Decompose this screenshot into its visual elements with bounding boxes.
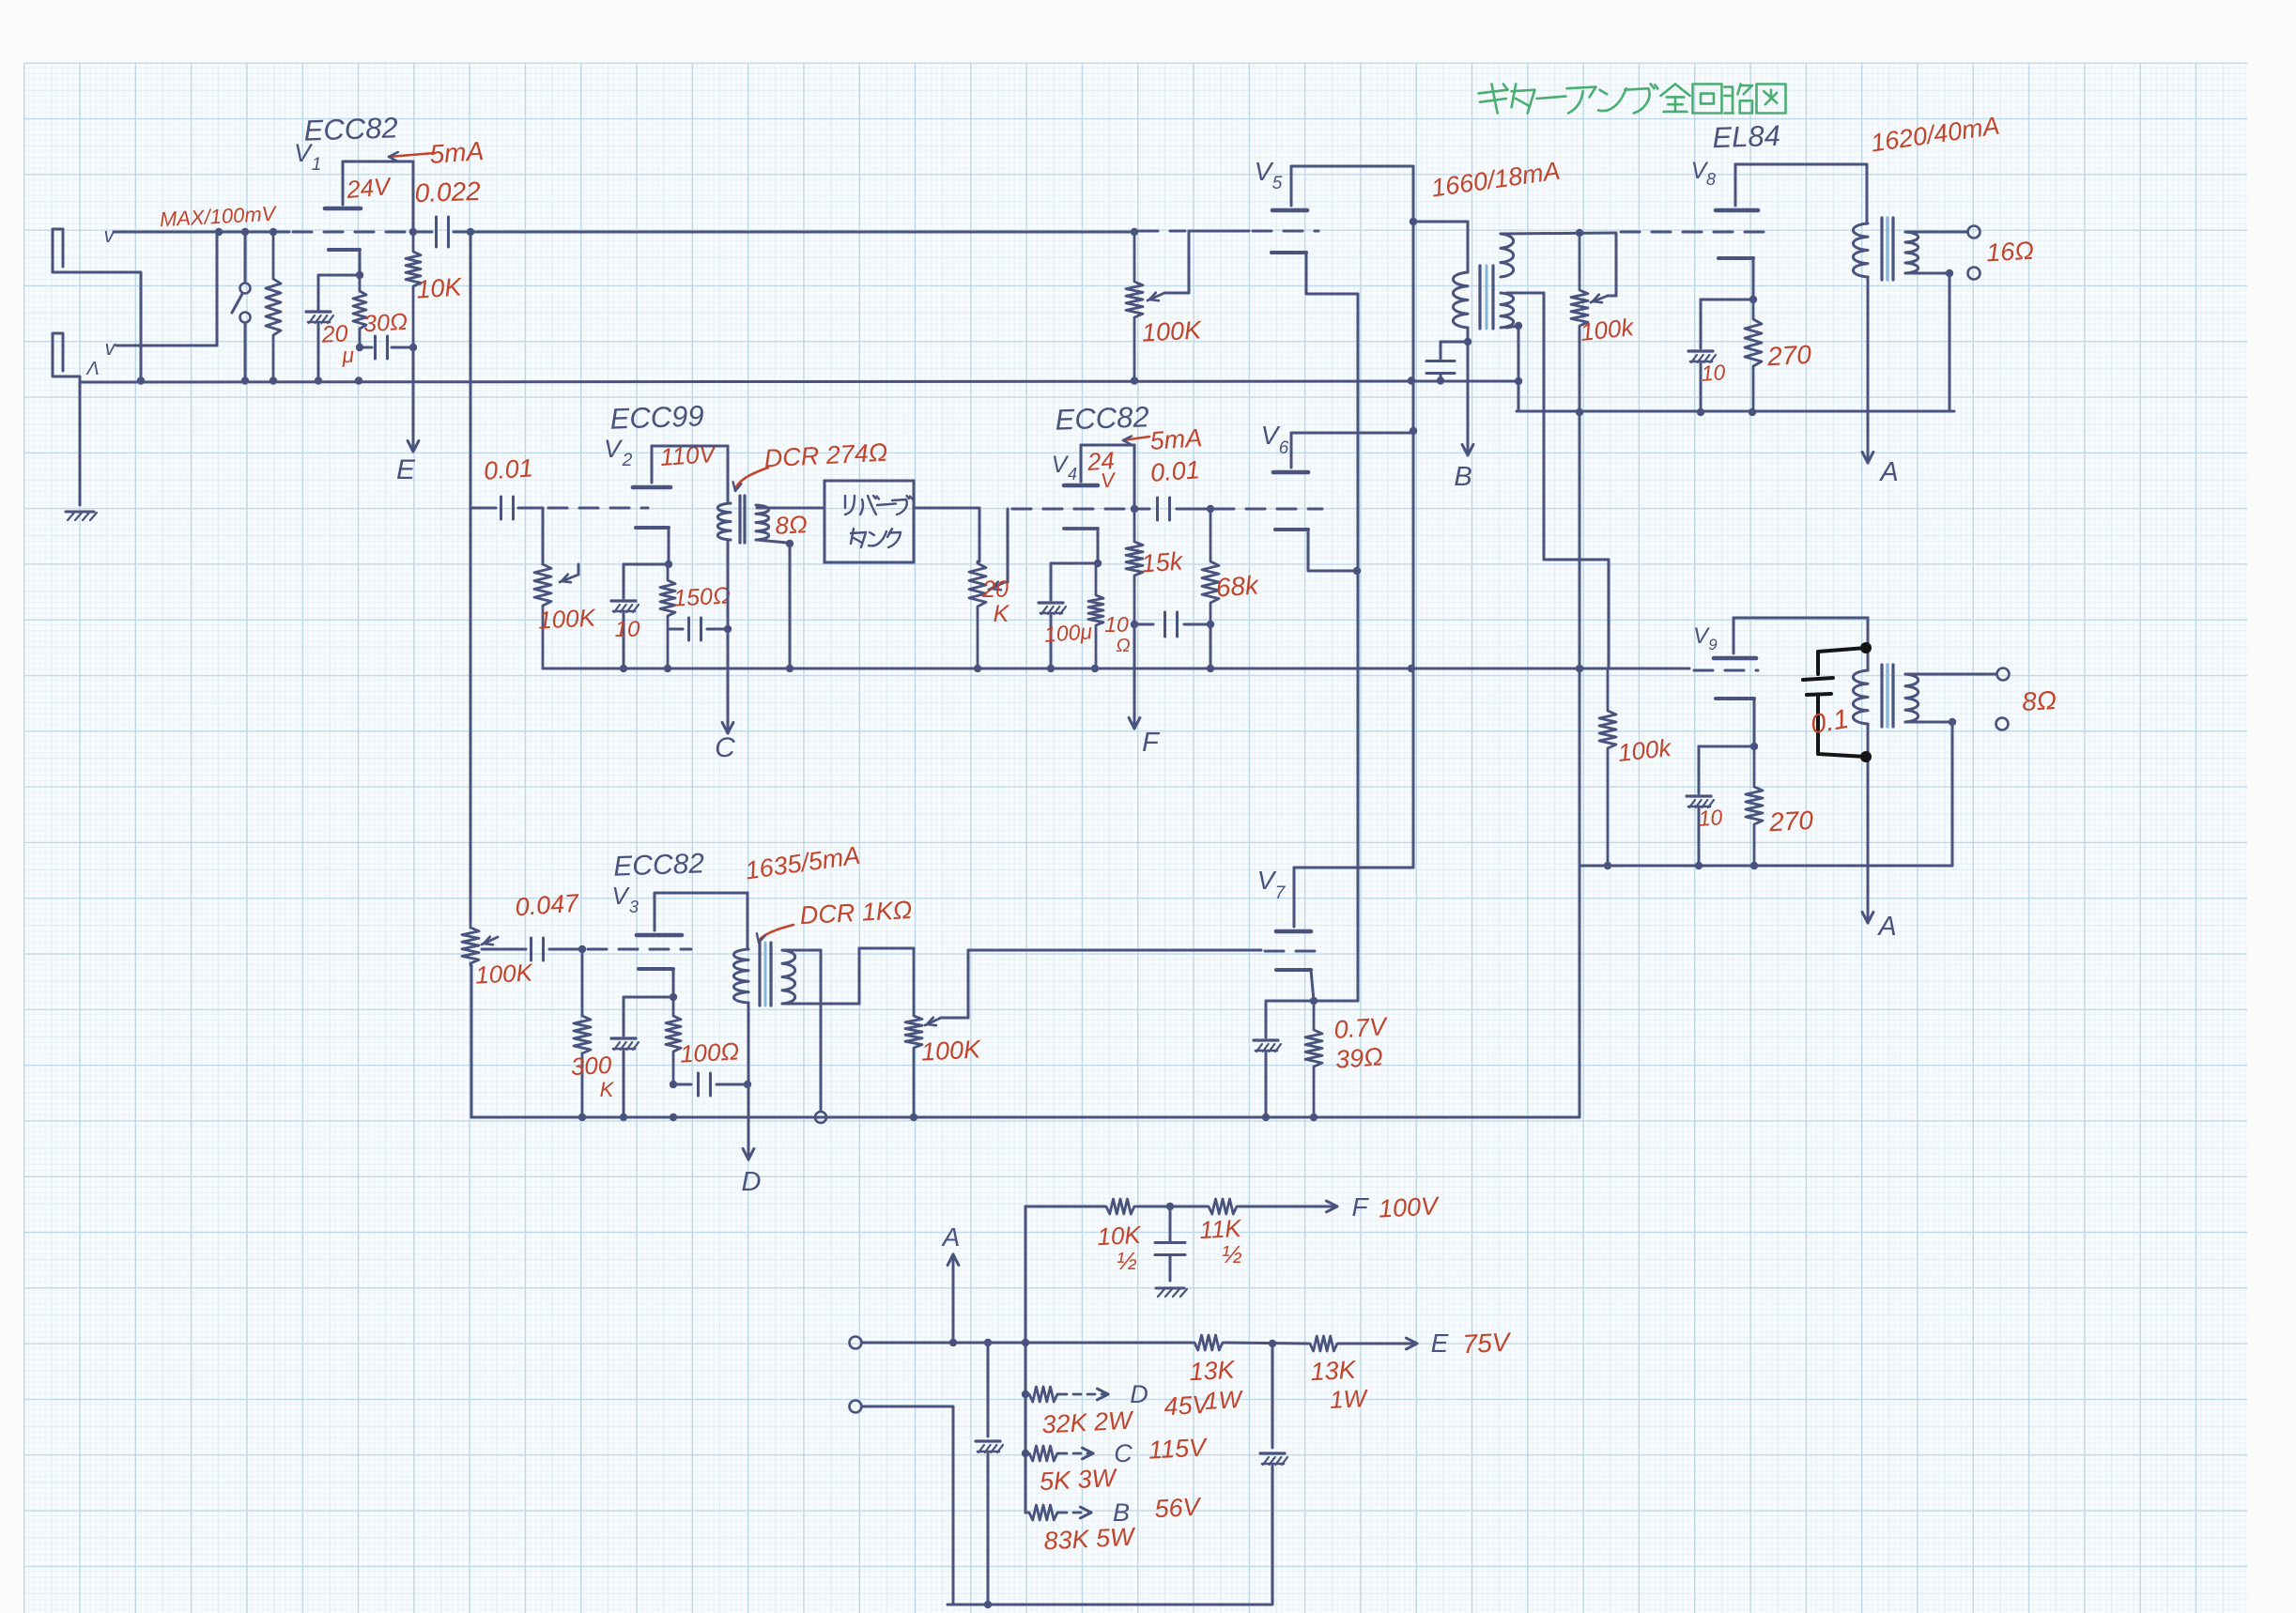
svg-text:F: F (1142, 728, 1161, 758)
svg-text:5mA: 5mA (429, 136, 485, 169)
svg-text:100μ: 100μ (1043, 619, 1093, 647)
svg-text:100V: 100V (1378, 1191, 1441, 1222)
svg-text:32K 2W: 32K 2W (1041, 1406, 1135, 1438)
svg-text:7: 7 (1275, 883, 1287, 903)
svg-text:8Ω: 8Ω (775, 510, 809, 540)
svg-text:13K: 13K (1189, 1356, 1237, 1387)
svg-text:6: 6 (1279, 438, 1289, 458)
svg-text:2: 2 (622, 451, 633, 470)
svg-text:100k: 100k (1616, 733, 1673, 767)
svg-text:μ: μ (341, 343, 355, 368)
svg-text:30Ω: 30Ω (362, 309, 408, 337)
svg-text:V: V (611, 882, 630, 910)
svg-text:A: A (1878, 457, 1898, 487)
svg-text:0.047: 0.047 (515, 889, 580, 922)
svg-text:0.022: 0.022 (414, 177, 482, 207)
svg-text:15k: 15k (1141, 546, 1185, 577)
svg-text:D: D (742, 1167, 762, 1197)
svg-text:39Ω: 39Ω (1334, 1042, 1384, 1073)
svg-text:24V: 24V (345, 172, 393, 204)
svg-text:10: 10 (1104, 612, 1129, 637)
svg-text:V: V (1261, 421, 1281, 450)
svg-text:4: 4 (1068, 465, 1077, 484)
svg-text:10: 10 (1701, 360, 1727, 386)
svg-text:A: A (941, 1222, 961, 1252)
svg-text:300: 300 (570, 1051, 612, 1081)
svg-text:75V: 75V (1462, 1328, 1513, 1360)
svg-text:100k: 100k (1579, 313, 1636, 346)
svg-text:ECC82: ECC82 (613, 848, 705, 882)
svg-text:V: V (1052, 452, 1070, 478)
svg-text:V: V (1257, 866, 1277, 895)
svg-text:100K: 100K (1141, 315, 1203, 346)
svg-text:110V: 110V (659, 439, 718, 471)
svg-text:F: F (1351, 1192, 1369, 1221)
svg-text:Λ: Λ (85, 359, 99, 379)
svg-text:1: 1 (312, 155, 322, 175)
svg-text:D: D (1130, 1380, 1148, 1408)
svg-text:E: E (1431, 1329, 1449, 1358)
svg-text:5mA: 5mA (1149, 423, 1203, 455)
svg-text:E: E (396, 454, 416, 485)
svg-text:0.01: 0.01 (483, 453, 534, 485)
svg-text:56V: 56V (1154, 1493, 1204, 1524)
svg-text:½: ½ (1222, 1240, 1242, 1268)
svg-text:8Ω: 8Ω (2021, 685, 2057, 716)
svg-text:C: C (715, 732, 735, 763)
svg-text:20: 20 (981, 576, 1009, 603)
svg-text:ECC82: ECC82 (1055, 400, 1149, 436)
svg-text:K: K (994, 601, 1010, 627)
svg-text:EL84: EL84 (1712, 119, 1781, 155)
svg-text:10: 10 (1698, 805, 1724, 831)
svg-text:8: 8 (1706, 170, 1716, 189)
svg-text:Ω: Ω (1116, 636, 1130, 656)
svg-text:V: V (604, 435, 624, 463)
svg-text:100Ω: 100Ω (679, 1037, 740, 1068)
svg-text:115V: 115V (1148, 1433, 1210, 1464)
svg-text:68k: 68k (1215, 570, 1261, 602)
svg-text:100K: 100K (537, 603, 597, 634)
svg-text:10: 10 (615, 617, 640, 642)
svg-text:5K 3W: 5K 3W (1039, 1464, 1118, 1496)
svg-text:150Ω: 150Ω (673, 582, 732, 611)
svg-text:100K: 100K (920, 1035, 982, 1066)
svg-text:10K: 10K (415, 272, 463, 303)
svg-text:ECC99: ECC99 (609, 399, 704, 435)
svg-text:83K 5W: 83K 5W (1043, 1522, 1137, 1555)
svg-text:B: B (1454, 462, 1472, 492)
svg-text:45V: 45V (1163, 1390, 1213, 1421)
svg-text:V: V (1255, 157, 1274, 186)
svg-text:1W: 1W (1329, 1384, 1369, 1414)
svg-text:3: 3 (629, 898, 639, 916)
svg-text:16Ω: 16Ω (1985, 237, 2034, 268)
svg-text:K: K (600, 1078, 615, 1101)
svg-text:270: 270 (1767, 806, 1814, 837)
svg-text:C: C (1114, 1439, 1133, 1467)
svg-text:9: 9 (1708, 636, 1718, 653)
svg-text:0.01: 0.01 (1149, 455, 1201, 487)
svg-text:DCR 1KΩ: DCR 1KΩ (799, 896, 913, 929)
svg-text:0.7V: 0.7V (1333, 1012, 1390, 1044)
svg-text:A: A (1876, 912, 1896, 942)
svg-text:1W: 1W (1204, 1385, 1244, 1415)
svg-text:13K: 13K (1310, 1356, 1358, 1387)
svg-text:270: 270 (1765, 340, 1812, 371)
svg-text:½: ½ (1117, 1247, 1137, 1275)
svg-text:5: 5 (1272, 174, 1283, 193)
svg-text:100K: 100K (474, 958, 534, 989)
svg-text:ECC82: ECC82 (303, 111, 398, 146)
